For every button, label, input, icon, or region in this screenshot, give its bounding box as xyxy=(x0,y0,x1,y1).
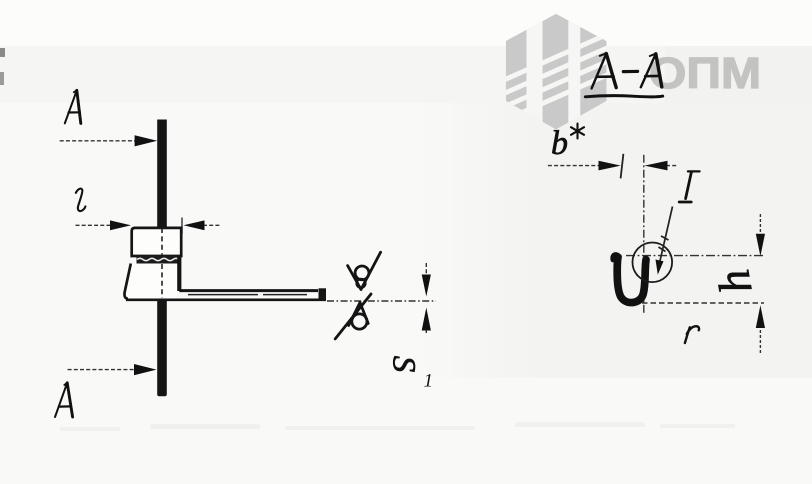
svg-text:1: 1 xyxy=(424,370,434,391)
svg-text:S: S xyxy=(385,356,421,373)
svg-text:ОПМ: ОПМ xyxy=(649,49,761,98)
svg-text:b: b xyxy=(551,125,568,162)
